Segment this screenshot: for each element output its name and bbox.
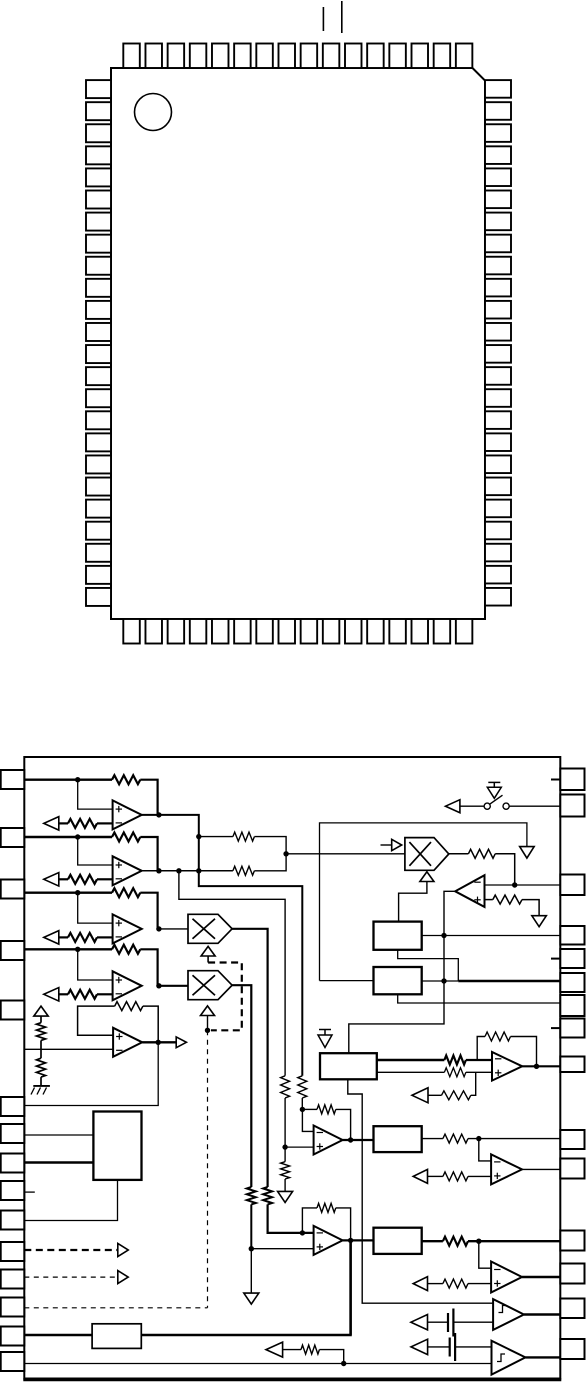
resistor R20 xyxy=(443,1134,468,1143)
U12 wire to capacitor C1 xyxy=(428,1321,449,1323)
LO dashed bus (thick) xyxy=(208,963,242,1031)
U13 wire to capacitor C2 xyxy=(428,1346,450,1348)
block G output wire up to U8 output xyxy=(141,1240,350,1335)
U11 reference resistor R23 xyxy=(443,1279,468,1288)
op-amp U3 xyxy=(113,914,142,943)
block D bottom wire xyxy=(398,950,459,981)
U9 output dot xyxy=(534,1064,539,1069)
wire left pin 8 to block H (thick) xyxy=(24,1161,93,1163)
U7 feedback resistor R11 xyxy=(317,1105,336,1114)
schematic left pins (15) xyxy=(1,770,25,1371)
resistor R22 xyxy=(443,1237,468,1246)
U10 output wire to right pin 11 xyxy=(522,1168,560,1170)
row2 reference resistor R2b xyxy=(68,875,97,884)
wire to block E input xyxy=(320,980,374,982)
VCM resistor R6a xyxy=(37,1016,46,1040)
v1 wire lower xyxy=(250,1204,252,1248)
v4 resistor R10 xyxy=(298,1076,307,1098)
v1 ground symbol xyxy=(244,1293,259,1304)
op-amp U7 xyxy=(314,1126,343,1155)
junction dot R20/U10 xyxy=(476,1136,481,1141)
op-amp U6 xyxy=(455,875,484,907)
summing resistor R5a xyxy=(233,832,255,841)
U11 reference arrow xyxy=(413,1277,427,1291)
row1 output junction dot xyxy=(156,812,161,817)
U7 + input wire xyxy=(285,1146,314,1148)
U9 reference arrow xyxy=(412,1088,428,1103)
row2 input wire from left pin xyxy=(24,836,112,838)
U9 + input resistor R17 xyxy=(444,1068,466,1077)
wire arrow to switch xyxy=(460,805,484,807)
VCM resistor R6b xyxy=(37,1058,46,1077)
block E output wire xyxy=(422,980,459,982)
block C xyxy=(374,1228,422,1254)
row4 reference resistor R4b xyxy=(68,990,97,999)
VCM rail arrow xyxy=(34,1006,48,1016)
block F xyxy=(320,1053,377,1079)
analog reference wire xyxy=(320,823,527,981)
VCM output dot xyxy=(156,1040,161,1045)
LO dashed line to left pin 13 xyxy=(24,1307,207,1309)
junction dot U7 - node xyxy=(300,1107,305,1112)
junction dot row1/comb-R xyxy=(196,834,201,839)
U8 output wire down to block G net xyxy=(349,1240,351,1335)
v3 wire xyxy=(284,1098,286,1147)
v3 ground symbol xyxy=(278,1191,293,1202)
junction dot U7 + node xyxy=(282,1144,287,1149)
VCM output wire xyxy=(142,1041,176,1043)
U8 feedback resistor R15 xyxy=(317,1203,336,1212)
U7 output wire to block B xyxy=(343,1139,374,1141)
comparator U12 xyxy=(493,1299,524,1330)
VCM divider wire xyxy=(40,1040,42,1058)
tap wire to v3 xyxy=(179,871,285,1076)
block B output wire xyxy=(422,1138,443,1140)
op-amp U8 xyxy=(314,1226,343,1255)
mixer M2 xyxy=(188,971,232,1000)
row1 wire to + input xyxy=(78,780,113,809)
block H xyxy=(93,1112,141,1180)
U9 + input wire xyxy=(466,1071,492,1073)
row2 output junction dot xyxy=(156,868,161,873)
row4 input junction dot xyxy=(75,947,80,952)
wire summing node to mixer M3 xyxy=(286,853,405,855)
mixer M3 xyxy=(405,838,449,871)
wire op-amp U6 - input to right pin 3 xyxy=(485,884,561,886)
VCM wire to left pin 6 xyxy=(24,1042,158,1105)
wire box edge to VCM - input xyxy=(24,1048,113,1050)
block E bottom wire to right pin 7 xyxy=(398,994,561,1003)
pin 1 marker circle xyxy=(135,94,172,131)
block D output wire to right pin 4 xyxy=(422,935,561,937)
clock input arrowhead 2 xyxy=(118,1271,128,1284)
mixer M3 LO wire from block D xyxy=(399,882,427,922)
mixer M2 output wire to v1 xyxy=(232,985,251,1187)
mixer M3 LO arrow xyxy=(420,872,434,882)
op-amp U1 xyxy=(113,800,142,829)
v3 resistor R9 xyxy=(281,1076,290,1098)
U11 reference wire xyxy=(428,1283,492,1285)
block F bottom wire to comparator xyxy=(348,1079,493,1303)
U13 upper reference arrow xyxy=(411,1339,428,1354)
ground symbol above block F xyxy=(318,1030,332,1048)
U13 upper input wire xyxy=(455,1346,491,1348)
lower wire resistor R24 xyxy=(301,1345,319,1354)
v3 resistor R12 to ground xyxy=(281,1147,290,1191)
block E xyxy=(374,967,422,994)
junction dot row1/row2 xyxy=(196,868,201,873)
v4 wire xyxy=(301,1098,303,1109)
op-amp U5 (VCM buffer) xyxy=(113,1028,142,1057)
wire to right pin 6 (thick) xyxy=(458,980,560,982)
row1 wire feedback to output xyxy=(140,780,157,815)
row4 feedback resistor R4a xyxy=(112,945,140,954)
mixer M1 xyxy=(188,914,232,943)
U9 reference resistor R19 xyxy=(442,1091,471,1100)
U9 feedback wire xyxy=(477,1037,536,1067)
row3 input junction dot xyxy=(75,890,80,895)
block C output wire xyxy=(422,1240,443,1242)
mixer M3 output resistor R7 xyxy=(468,849,495,858)
pin R8 stub xyxy=(551,1027,560,1029)
row3 feedback resistor R3a xyxy=(112,888,140,897)
block D xyxy=(374,922,422,950)
mixer M1 LO arrow xyxy=(201,946,215,956)
bottom pins (16) xyxy=(123,619,472,644)
mixer M3 control stub xyxy=(381,844,392,846)
row3 wire reference to - input xyxy=(59,936,113,938)
wire to right pin 10 xyxy=(468,1138,560,1140)
row2 reference arrow xyxy=(44,873,59,887)
U10 reference wire xyxy=(428,1175,492,1177)
U10 - input wire xyxy=(479,1139,491,1161)
IC boundary box xyxy=(24,757,560,1379)
U6 + input resistor R8 xyxy=(493,895,522,904)
block F output wire top (thick) xyxy=(377,1059,445,1061)
U10 reference arrow xyxy=(413,1169,427,1183)
left pins (24) xyxy=(86,80,111,606)
comparator U13 xyxy=(492,1341,526,1375)
U11 output wire to right pin 13 xyxy=(522,1276,560,1278)
U12 lower input wire xyxy=(453,1321,493,1323)
VCM ground stem xyxy=(40,1077,42,1086)
switch SW1 contacts xyxy=(484,803,509,809)
U11 - input wire xyxy=(479,1241,491,1268)
U12 output wire to right pin 14 xyxy=(524,1313,560,1315)
capacitor C1 xyxy=(448,1309,453,1337)
IC boundary bottom edge (thick) xyxy=(23,1378,561,1381)
row2 wire to + input xyxy=(78,837,113,865)
pin R1 stub xyxy=(551,779,560,781)
IC package body (chamfered pin-1 index corner top-right) xyxy=(111,68,485,619)
VCM feedback wire xyxy=(78,1006,159,1042)
dimension tick line right xyxy=(341,1,343,33)
dimension tick line left xyxy=(322,7,324,31)
U9 - input resistor R16 xyxy=(444,1056,466,1065)
summing resistor R5b xyxy=(233,866,255,875)
mixer M1 output wire to v2 xyxy=(232,929,268,1187)
pin L9 stub xyxy=(24,1191,35,1193)
VCM feedback resistor R6c xyxy=(115,1002,143,1011)
mixer M3 output wire xyxy=(449,854,515,885)
clock input arrowhead xyxy=(118,1244,128,1257)
row1 wire reference to - input xyxy=(59,822,113,824)
junction dot D-out xyxy=(441,933,446,938)
row3 wire to + input xyxy=(78,893,113,923)
U8 output dot xyxy=(348,1238,353,1243)
chassis ground xyxy=(31,1086,50,1095)
U13 lower input wire from left pin 15 xyxy=(24,1363,491,1365)
row2 input junction dot xyxy=(75,834,80,839)
top pins (16) xyxy=(123,44,472,69)
row4 output junction dot xyxy=(156,983,161,988)
mixer M2 LO arrow xyxy=(201,1006,215,1016)
right pins (24) xyxy=(485,80,511,605)
U7 feedback wire xyxy=(302,1109,350,1140)
row2 feedback resistor R2a xyxy=(112,833,140,842)
clock input dashed (thin) from pin 12 xyxy=(24,1276,118,1278)
row1 input wire from left pin xyxy=(24,779,112,781)
U6 ground symbol xyxy=(532,916,547,927)
U7 - input wire xyxy=(302,1109,313,1131)
row2 wire reference to - input xyxy=(59,878,113,880)
U7 output dot xyxy=(348,1137,353,1142)
row2 wire feedback to output xyxy=(140,837,157,871)
wire left pin 14 to block G xyxy=(24,1334,92,1336)
wire switch to right pin 2 xyxy=(509,805,560,807)
U8 + input wire xyxy=(251,1248,313,1250)
junction dot R22/U11 xyxy=(476,1239,481,1244)
LO junction dot xyxy=(205,1028,210,1033)
block F output wire bottom xyxy=(377,1071,445,1073)
row1 input junction dot xyxy=(75,777,80,782)
row1 reference resistor R1b xyxy=(68,819,97,828)
wire to right pin 12 xyxy=(468,1240,560,1242)
op-amp U4 xyxy=(113,971,142,1000)
schematic right pins (15) xyxy=(560,769,584,1360)
mixer M3 control arrow xyxy=(392,839,402,850)
v1 wire to ground xyxy=(250,1249,252,1293)
summing node right wires xyxy=(254,837,286,871)
block B xyxy=(374,1126,422,1152)
U9 - input wire xyxy=(466,1059,492,1061)
row1 output wire xyxy=(142,815,303,1076)
row4 reference arrow xyxy=(44,988,59,1002)
switch SW1 lever xyxy=(490,795,503,804)
row4 wire feedback to output xyxy=(140,949,157,986)
U8 output wire to block C xyxy=(343,1239,374,1241)
v2 resistor R14 xyxy=(263,1187,272,1204)
row3 reference resistor R3b xyxy=(68,933,97,942)
capacitor C2 xyxy=(450,1333,455,1361)
LO dashed line down (thin) xyxy=(207,1030,209,1308)
junction dot M3/USB xyxy=(512,882,517,887)
row3 wire to mixer M1 xyxy=(159,928,188,930)
row2 output wire xyxy=(142,870,233,872)
VCM output arrow xyxy=(176,1037,186,1048)
wire left pin 7 to block H xyxy=(24,1134,93,1136)
U10 reference resistor R21 xyxy=(443,1172,468,1181)
summing node dot xyxy=(283,851,288,856)
block H bottom wire to left pin 10 xyxy=(24,1180,117,1221)
summing resistor R5a lead xyxy=(199,836,233,838)
op-amp U11 xyxy=(491,1262,522,1293)
mixer M1 LO stem xyxy=(207,956,209,963)
v2 wire to - input xyxy=(268,1204,314,1233)
junction dot row2 tap xyxy=(176,868,181,873)
v1 resistor R13 xyxy=(247,1187,256,1204)
row4 wire to + input xyxy=(78,949,113,980)
U13 output wire to right pin 15 xyxy=(525,1356,560,1358)
op-amp U2 xyxy=(113,856,142,885)
lower wire reference path xyxy=(283,1350,344,1364)
mixer M2 LO stem xyxy=(207,1016,209,1031)
U8 feedback wire xyxy=(302,1208,350,1241)
row4 input wire from left pin xyxy=(24,948,112,950)
U9 output wire to right pin 9 xyxy=(522,1065,560,1067)
clock input dashed (thick) from pin 11 xyxy=(24,1249,118,1251)
row3 output junction dot xyxy=(156,926,161,931)
junction dot U8 - node xyxy=(300,1230,305,1235)
op-amp U9 xyxy=(492,1052,522,1081)
row3 reference arrow xyxy=(44,931,59,945)
row4 wire to mixer M2 xyxy=(159,985,188,987)
U12 reference arrow xyxy=(411,1315,428,1330)
switch input arrow xyxy=(446,800,460,813)
junction dot E-out xyxy=(441,978,446,983)
junction dot on lower wire xyxy=(341,1361,346,1366)
op-amp U10 xyxy=(491,1154,522,1184)
row4 wire reference to - input xyxy=(59,993,113,995)
U9 reference wire xyxy=(428,1072,476,1095)
U6 + input wire xyxy=(485,900,540,916)
block G xyxy=(92,1324,141,1349)
reference ground symbol xyxy=(520,847,535,859)
U9 feedback resistor R18 xyxy=(485,1032,511,1041)
pin R5 stub xyxy=(551,958,560,960)
U6 output wire down xyxy=(349,891,455,1053)
lower wire reference arrow xyxy=(266,1342,283,1357)
row1 reference arrow xyxy=(44,817,59,831)
junction dot U8 + node xyxy=(249,1246,254,1251)
switch control symbol xyxy=(487,782,501,798)
row3 wire feedback to output xyxy=(140,893,157,929)
row1 feedback resistor R1a xyxy=(112,775,140,784)
row3 input wire from left pin xyxy=(24,892,112,894)
